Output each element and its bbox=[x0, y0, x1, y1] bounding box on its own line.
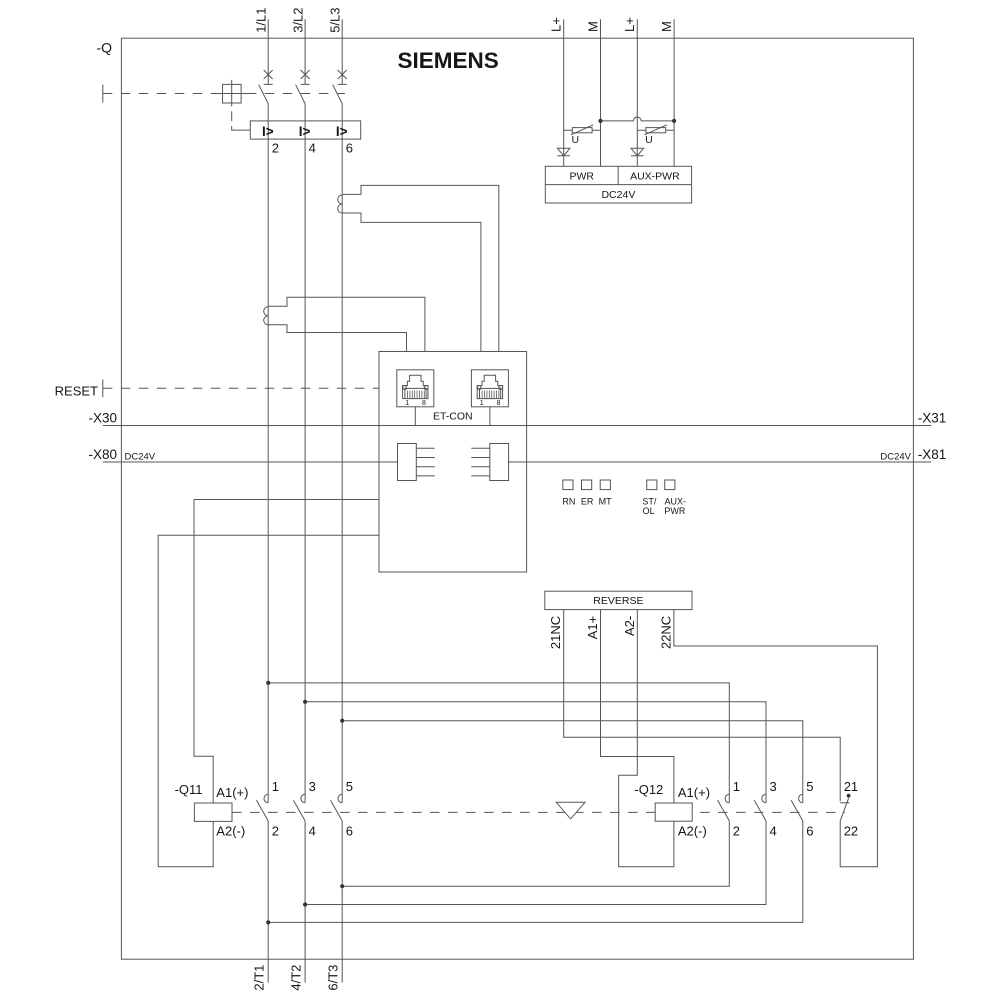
svg-text:4: 4 bbox=[770, 824, 777, 839]
terminal rail -X80 to -X81 (DC24V), right segment bbox=[508, 461, 931, 463]
diode D2 on aux L+ bbox=[631, 148, 644, 156]
svg-text:3: 3 bbox=[309, 779, 316, 794]
junction dot L1 lower bbox=[266, 920, 270, 924]
svg-text:SIEMENS: SIEMENS bbox=[398, 48, 499, 73]
wire J2 to -X30 rail bbox=[489, 407, 491, 426]
svg-text:1/L1: 1/L1 bbox=[254, 7, 269, 32]
svg-text:6: 6 bbox=[346, 824, 353, 839]
contact Q12 pole 3 (NO): arc and lever bbox=[791, 794, 803, 821]
diode D1 on L+ bbox=[557, 148, 570, 156]
svg-text:-X80: -X80 bbox=[88, 447, 117, 462]
svg-text:-Q12: -Q12 bbox=[634, 782, 663, 797]
wire phase L2 vertical (3/L2 to 4/T2) bbox=[304, 19, 306, 982]
electronic unit ET-CON box bbox=[379, 352, 527, 573]
svg-text:5/L3: 5/L3 bbox=[328, 7, 343, 32]
svg-text:21: 21 bbox=[844, 779, 858, 794]
svg-text:L+: L+ bbox=[549, 17, 564, 32]
svg-text:REVERSE: REVERSE bbox=[593, 595, 643, 607]
wire ET-CON to Q11 coil A1 bbox=[194, 500, 379, 804]
varistor U1 strike bbox=[571, 125, 594, 135]
junction dot L2 lower bbox=[303, 902, 307, 906]
junction dot M2 bbox=[672, 119, 676, 123]
wire L+ supply vertical bbox=[563, 19, 565, 166]
varistor U2 wire bbox=[637, 129, 674, 131]
svg-text:6/T3: 6/T3 bbox=[326, 965, 341, 991]
svg-text:-Q: -Q bbox=[97, 39, 113, 55]
contact Q11 pole 2 (NO): arc and lever bbox=[293, 794, 305, 821]
CT2 secondary wire upper bbox=[268, 297, 425, 351]
svg-text:DC24V: DC24V bbox=[125, 452, 156, 463]
svg-text:A2-: A2- bbox=[622, 616, 637, 636]
svg-text:4: 4 bbox=[309, 824, 316, 839]
wire 21NC from REVERSE to NC contact bbox=[564, 610, 841, 802]
terminal rail -X80 to -X81 (DC24V), left segment bbox=[103, 461, 398, 463]
svg-text:A1(+): A1(+) bbox=[216, 785, 248, 800]
junction dot M1 bbox=[598, 119, 602, 123]
svg-text:-X81: -X81 bbox=[918, 447, 947, 462]
svg-text:3: 3 bbox=[770, 779, 777, 794]
svg-text:ST/: ST/ bbox=[642, 497, 657, 507]
wire A1+ from REVERSE to Q12 coil A1 bbox=[601, 610, 674, 803]
wire phase L3 vertical (5/L3 to 6/T3) bbox=[341, 19, 343, 982]
svg-text:AUX-: AUX- bbox=[664, 497, 686, 507]
svg-text:4: 4 bbox=[309, 140, 316, 155]
wire M-M link with hop over L+ bbox=[601, 117, 675, 121]
RESET line start tick bbox=[102, 380, 104, 398]
wire Q11 pole2 to Q12 pole2 (upper crossover) bbox=[305, 702, 766, 803]
svg-text:5: 5 bbox=[806, 779, 813, 794]
contact Q12 21-22 (NC): bar, lever bbox=[840, 798, 849, 821]
operator to trip unit dashed vertical bbox=[231, 111, 233, 121]
svg-text:-X30: -X30 bbox=[88, 410, 117, 425]
contactor Q12 coil bbox=[655, 803, 692, 821]
svg-text:DC24V: DC24V bbox=[601, 189, 635, 201]
wire L+ aux vertical bbox=[636, 19, 638, 166]
breaker Q pole 1: X mark, fixed bar, lever bbox=[259, 70, 273, 104]
operator to trip unit elbow bbox=[232, 126, 251, 130]
mechanical linkage dashed line Q11-Q12 bbox=[232, 811, 845, 813]
terminal rail -X30 to -X31 bbox=[103, 425, 931, 427]
RJ45 jack J1 bbox=[397, 370, 434, 407]
svg-text:8: 8 bbox=[422, 400, 426, 407]
operator linkage solid segment through square bbox=[213, 93, 249, 95]
svg-text:1: 1 bbox=[272, 779, 279, 794]
CT2 secondary wire lower bbox=[268, 325, 406, 352]
current transformer CT1 winding bumps on L3 bbox=[338, 195, 343, 213]
svg-text:U: U bbox=[645, 134, 653, 146]
svg-text:1: 1 bbox=[480, 400, 484, 407]
breaker Q pole 2: X mark, fixed bar, lever bbox=[296, 70, 310, 104]
varistor U1 wire bbox=[564, 129, 601, 131]
svg-text:2: 2 bbox=[733, 824, 740, 839]
svg-text:A1(+): A1(+) bbox=[678, 785, 710, 800]
connector header X80 side bbox=[398, 444, 417, 481]
svg-text:ET-CON: ET-CON bbox=[433, 411, 473, 423]
RESET dashed control line bbox=[103, 387, 379, 389]
REVERSE command box bbox=[545, 591, 692, 609]
mechanical interlock triangle bbox=[556, 802, 585, 819]
manual operator square bbox=[223, 84, 242, 103]
svg-text:PWR: PWR bbox=[664, 506, 685, 516]
svg-text:-X31: -X31 bbox=[918, 410, 947, 425]
svg-text:1: 1 bbox=[405, 400, 409, 407]
wire M aux vertical bbox=[673, 19, 675, 166]
svg-text:22NC: 22NC bbox=[659, 616, 674, 649]
LED indicator squares RN ER MT ST/OL AUX-PWR bbox=[563, 480, 573, 490]
contact Q12 pole 1 (NO): arc and lever bbox=[718, 794, 730, 821]
svg-text:6: 6 bbox=[806, 824, 813, 839]
varistor U2 strike bbox=[644, 125, 667, 135]
wire ET-CON to Q11 coil A2 bbox=[158, 535, 379, 866]
svg-text:A2(-): A2(-) bbox=[678, 824, 707, 839]
contact Q11 pole 1 (NO): arc and lever bbox=[257, 794, 269, 821]
wire A2- from REVERSE to Q12 coil A2 bbox=[619, 610, 674, 867]
svg-text:A2(-): A2(-) bbox=[216, 824, 245, 839]
CT1 secondary wire lower bbox=[342, 213, 481, 352]
svg-text:I>: I> bbox=[262, 124, 274, 139]
contact Q12 pole 2 (NO): arc and lever bbox=[754, 794, 766, 821]
RJ45 jack J2 bbox=[471, 370, 508, 407]
operator linkage start tick bbox=[102, 85, 104, 103]
connector header X81 side bbox=[490, 444, 509, 481]
junction dot L3 upper bbox=[340, 719, 344, 723]
device -Q boundary box bbox=[121, 38, 913, 959]
svg-text:ER: ER bbox=[581, 497, 594, 507]
wire phase L1 vertical (1/L1 to 2/T1) bbox=[267, 19, 269, 982]
svg-text:21NC: 21NC bbox=[548, 616, 563, 649]
svg-text:5: 5 bbox=[346, 779, 353, 794]
svg-text:AUX-PWR: AUX-PWR bbox=[630, 171, 680, 183]
wire Q12 pole3 to L1 (lower crossover) bbox=[268, 821, 803, 923]
junction dot L1 upper bbox=[266, 681, 270, 685]
power supply block PWR / AUX-PWR / DC24V bbox=[545, 166, 691, 203]
svg-text:I>: I> bbox=[336, 124, 348, 139]
svg-text:4/T2: 4/T2 bbox=[289, 965, 304, 991]
svg-text:8: 8 bbox=[497, 400, 501, 407]
breaker Q pole 3: X mark, fixed bar, lever bbox=[333, 70, 347, 104]
svg-text:I>: I> bbox=[299, 124, 311, 139]
wire Q11 pole1 to Q12 pole1 (upper crossover) bbox=[268, 683, 729, 803]
varistor U2 body bbox=[646, 128, 666, 133]
operator stem vertical bbox=[231, 80, 233, 107]
wire J1 to -X30 rail bbox=[414, 407, 416, 426]
svg-text:1: 1 bbox=[733, 779, 740, 794]
svg-text:22: 22 bbox=[844, 824, 858, 839]
CT1 secondary wire upper bbox=[342, 185, 499, 351]
svg-text:2: 2 bbox=[272, 140, 279, 155]
svg-text:6: 6 bbox=[346, 140, 353, 155]
svg-text:PWR: PWR bbox=[569, 171, 594, 183]
svg-text:RN: RN bbox=[562, 497, 575, 507]
svg-text:L+: L+ bbox=[622, 17, 637, 32]
svg-text:M: M bbox=[585, 21, 600, 32]
svg-text:OL: OL bbox=[643, 506, 655, 516]
svg-text:-Q11: -Q11 bbox=[175, 782, 203, 797]
svg-text:3/L2: 3/L2 bbox=[291, 7, 306, 32]
wire 22NC from REVERSE to NC contact bottom bbox=[674, 610, 878, 867]
junction dot L2 upper bbox=[303, 700, 307, 704]
wire Q11 pole3 to Q12 pole3 (upper crossover) bbox=[342, 721, 803, 803]
NC contact pivot dot bbox=[847, 794, 851, 798]
varistor U1 body bbox=[572, 128, 592, 133]
svg-text:M: M bbox=[659, 21, 674, 32]
operator linkage dashed line bbox=[103, 93, 345, 95]
svg-text:DC24V: DC24V bbox=[880, 452, 911, 463]
svg-text:2/T1: 2/T1 bbox=[252, 965, 267, 991]
wire Q12 pole2 to L2 (lower crossover) bbox=[305, 821, 766, 905]
trip unit I> box bbox=[250, 121, 360, 139]
contactor Q11 coil bbox=[194, 803, 232, 821]
wire M supply vertical bbox=[600, 19, 602, 166]
svg-text:RESET: RESET bbox=[55, 383, 98, 398]
svg-text:U: U bbox=[572, 134, 580, 146]
wire Q12 pole1 to L3 (lower crossover) bbox=[342, 821, 729, 886]
svg-text:2: 2 bbox=[272, 824, 279, 839]
contact Q11 pole 3 (NO): arc and lever bbox=[331, 794, 343, 821]
current transformer CT2 winding bumps on L1 bbox=[264, 307, 269, 325]
svg-text:A1+: A1+ bbox=[585, 616, 600, 640]
svg-text:MT: MT bbox=[599, 497, 612, 507]
junction dot L3 lower bbox=[340, 884, 344, 888]
